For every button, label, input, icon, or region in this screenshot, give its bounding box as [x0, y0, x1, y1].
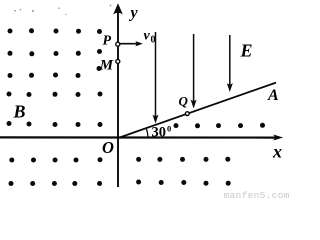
svg-text:Q: Q — [179, 94, 189, 109]
svg-text:B: B — [13, 102, 26, 122]
y-axis — [117, 10, 119, 187]
svg-text:manfen5.com: manfen5.com — [224, 190, 290, 201]
svg-text:v: v — [144, 29, 151, 44]
svg-text:x: x — [272, 142, 282, 162]
slanted line A from origin at 19 degrees — [118, 83, 277, 139]
x-axis arrowhead — [273, 135, 283, 141]
x-axis — [0, 136, 276, 138]
svg-text:0: 0 — [151, 35, 156, 46]
point P circle on y-axis — [116, 42, 120, 46]
svg-text:A: A — [267, 87, 279, 104]
magnetic field dot row between slanted line and x-axis — [174, 123, 266, 129]
magnetic field dot grid, right of y-axis below x-axis — [136, 157, 231, 186]
point M circle on y-axis — [116, 59, 120, 63]
E field arrow 3 — [227, 35, 233, 92]
svg-text:y: y — [129, 5, 139, 22]
y-axis arrowhead — [113, 3, 123, 14]
magnetic field dot grid, left of y-axis below x-axis — [9, 157, 103, 186]
E field arrow 1 — [153, 32, 159, 124]
svg-text:E: E — [240, 41, 253, 61]
svg-text:0: 0 — [167, 123, 171, 133]
svg-text:O: O — [102, 138, 114, 157]
svg-text:30: 30 — [152, 124, 167, 140]
scan speckles top left — [14, 5, 111, 16]
v0 velocity arrow at P — [120, 41, 143, 46]
point Q circle on slanted line — [185, 112, 189, 116]
angle arc at origin — [146, 128, 148, 138]
svg-text:M: M — [99, 58, 114, 74]
svg-text:P: P — [103, 34, 112, 49]
magnetic field dot grid, left of y-axis above x-axis — [7, 28, 103, 127]
E field arrow 2 — [191, 34, 197, 109]
